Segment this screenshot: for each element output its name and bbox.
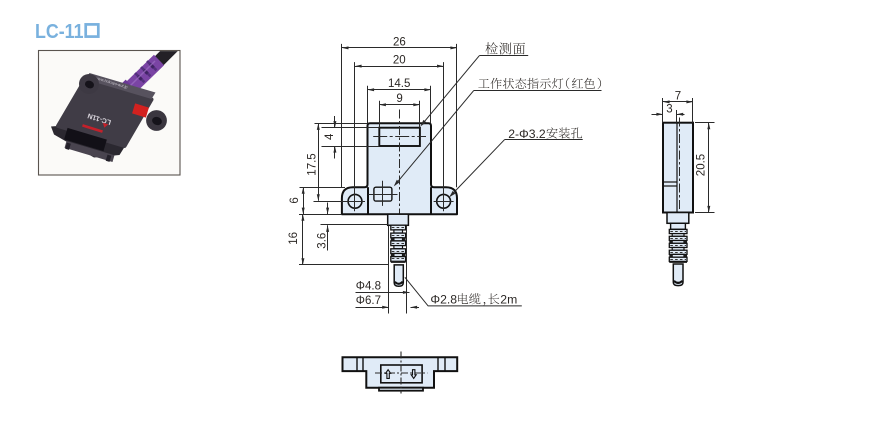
label working status indicator (red) (474, 90, 602, 92)
photo purple strain relief (124, 60, 159, 94)
dim 14.5 (368, 89, 432, 91)
side cable neck (667, 213, 689, 224)
bottom view outline (343, 357, 458, 387)
svg-text:Φ4.8: Φ4.8 (356, 280, 381, 292)
photo mounting ear upper-left (79, 74, 99, 94)
svg-text:2m: 2m (500, 293, 517, 307)
photo red logo (82, 124, 103, 133)
dim 3.6 (327, 203, 329, 215)
front cable strain relief (391, 225, 406, 230)
front cable (394, 265, 403, 286)
ext lines dim 4 (322, 127, 380, 129)
dim 16 (302, 214, 304, 265)
front indicator window (374, 187, 392, 201)
label jiance-mian (detection face) (479, 55, 528, 57)
photo frame (39, 51, 181, 176)
front mounting hole right (437, 194, 451, 208)
bottom horizontal centreline (375, 372, 427, 374)
model label open square (86, 24, 99, 36)
svg-text:20.5: 20.5 (696, 154, 708, 176)
svg-text:4: 4 (324, 133, 336, 140)
label 2-phi3.2 mounting holes (505, 139, 583, 141)
front cable neck (388, 214, 409, 225)
side view body (663, 123, 693, 213)
svg-text:20: 20 (393, 55, 406, 67)
front detection window (379, 128, 420, 146)
bottom receiver arrow (down) (411, 370, 416, 379)
bottom wing lines (356, 357, 358, 371)
photo top face band (86, 73, 156, 99)
ext lines dim 17.5 (315, 123, 368, 125)
side strain relief end lines (669, 262, 687, 264)
dim 26 (342, 47, 457, 49)
ext line dim 16 bottom (299, 264, 389, 266)
svg-text:7: 7 (675, 90, 681, 102)
front strain relief end lines (391, 262, 406, 264)
side dim 7 (663, 101, 693, 103)
side centreline (679, 118, 681, 215)
dim 4 (334, 116, 336, 128)
ext lines dim 6 (300, 187, 346, 189)
svg-text:16: 16 (288, 232, 300, 245)
bottom vertical centreline (400, 352, 402, 394)
photo mounting ear right (146, 110, 167, 131)
front indicator crosshairs (368, 194, 397, 196)
front window centreline (373, 136, 426, 138)
bottom lip (379, 388, 423, 391)
front hole crosshairs (314, 201, 366, 203)
photo sensor body (58, 80, 152, 146)
svg-text:Φ2.8: Φ2.8 (430, 293, 457, 307)
svg-text:9: 9 (396, 93, 402, 105)
dim 9 (379, 104, 420, 106)
svg-text:2-Φ3.2: 2-Φ3.2 (508, 127, 546, 141)
svg-text:3.6: 3.6 (317, 233, 329, 249)
photo detection window (64, 128, 107, 151)
cable dia extension lines (388, 226, 390, 314)
dim 20 (355, 66, 444, 68)
front mounting hole left (348, 194, 362, 208)
side ext lines (662, 98, 664, 123)
photo black cable (150, 39, 181, 70)
front view body outline (342, 123, 457, 214)
front vertical centreline (399, 110, 401, 230)
photo sensor side faces (51, 126, 125, 158)
side detection plane line (676, 123, 678, 213)
dim phi6.7 (356, 307, 389, 309)
front body side edges through flange (367, 187, 369, 214)
side dim 20.5 (708, 123, 710, 213)
svg-text:3: 3 (666, 103, 672, 115)
dim 17.5 (318, 123, 320, 201)
side cable (673, 264, 683, 286)
side strain relief (669, 229, 687, 233)
svg-text:LC-11: LC-11 (35, 20, 84, 43)
side cable neck 2 (671, 223, 686, 229)
bottom inner window rect (381, 365, 422, 383)
svg-text:26: 26 (393, 36, 406, 48)
svg-text:6: 6 (289, 197, 301, 203)
extension lines top dims (341, 44, 343, 187)
svg-text:17.5: 17.5 (307, 153, 319, 175)
photo red indicator (132, 103, 149, 117)
dim phi4.8 (356, 292, 410, 294)
side dim 3 (652, 114, 664, 116)
svg-text:Φ6.7: Φ6.7 (356, 295, 381, 307)
dim 6 (303, 187, 305, 214)
photo bottom lip (65, 141, 115, 162)
ext line dim 3.6 (321, 224, 388, 226)
svg-text:14.5: 14.5 (388, 78, 410, 90)
bottom emitter arrow (up) (386, 370, 391, 379)
side window feature lines (663, 181, 677, 183)
label phi2.8 cable 2m (405, 277, 522, 306)
